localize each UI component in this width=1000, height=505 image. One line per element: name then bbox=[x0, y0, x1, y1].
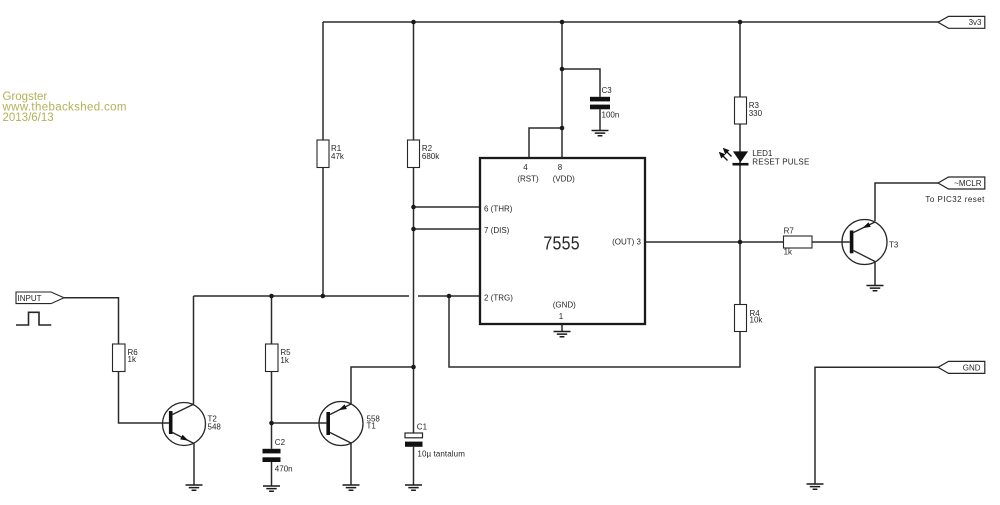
node OUT bbox=[738, 240, 743, 245]
diode LED1 bbox=[720, 149, 749, 164]
wire RST pin 4 bbox=[529, 128, 562, 158]
transistor T2 body bbox=[163, 403, 206, 446]
svg-text:2013/6/13: 2013/6/13 bbox=[3, 112, 54, 124]
node TRG R5 bbox=[269, 294, 274, 299]
svg-text:T1: T1 bbox=[367, 422, 377, 431]
wire T2 emitter to ground bbox=[193, 444, 195, 486]
wire C3 to ground bbox=[599, 109, 601, 130]
svg-text:10k: 10k bbox=[750, 316, 764, 325]
transistor T1 body bbox=[319, 402, 363, 446]
wire R1 column bbox=[322, 22, 324, 296]
wire TRG left segment bbox=[194, 295, 410, 297]
svg-text:100n: 100n bbox=[602, 111, 620, 120]
ground C1 bbox=[405, 485, 422, 490]
svg-text:8: 8 bbox=[558, 163, 563, 172]
svg-text:(GND): (GND) bbox=[553, 301, 576, 310]
wire LED/R3 column bbox=[739, 22, 741, 242]
wire C3 branch bbox=[562, 69, 600, 97]
svg-text:10µ tantalum: 10µ tantalum bbox=[417, 449, 465, 458]
op-amp U1 timer IC 7555 body bbox=[480, 158, 645, 324]
svg-text:680k: 680k bbox=[422, 152, 440, 161]
node input pulse symbol bbox=[16, 312, 51, 325]
svg-text:~MCLR: ~MCLR bbox=[954, 179, 982, 188]
svg-text:RESET PULSE: RESET PULSE bbox=[752, 157, 809, 166]
node top rail x740 bbox=[738, 20, 743, 25]
node TRG R1 bbox=[321, 294, 326, 299]
svg-text:7555: 7555 bbox=[543, 234, 580, 254]
node C3 tap bbox=[560, 67, 565, 72]
resistor R2 bbox=[408, 140, 420, 168]
node top rail x414 bbox=[411, 20, 416, 25]
ground IC pin1 bbox=[554, 332, 571, 337]
node 3v3 flag bbox=[938, 16, 985, 28]
ground C2 bbox=[263, 486, 280, 491]
svg-text:47k: 47k bbox=[331, 152, 345, 161]
svg-text:2 (TRG): 2 (TRG) bbox=[484, 294, 513, 303]
wire THR bbox=[414, 206, 481, 208]
wire T1 emitter to node bbox=[351, 367, 414, 404]
wire T1 base bbox=[272, 422, 327, 424]
ground T2 bbox=[186, 485, 203, 490]
svg-text:C1: C1 bbox=[417, 423, 428, 432]
svg-text:C2: C2 bbox=[275, 438, 286, 447]
svg-text:(VDD): (VDD) bbox=[553, 174, 576, 183]
svg-text:GND: GND bbox=[963, 363, 981, 372]
wire R2/C1 column bbox=[413, 22, 415, 433]
svg-text:6 (THR): 6 (THR) bbox=[484, 204, 513, 213]
wire DIS bbox=[414, 228, 481, 230]
resistor R4 bbox=[735, 305, 747, 332]
svg-text:To PIC32 reset: To PIC32 reset bbox=[925, 195, 985, 204]
node C2 top bbox=[269, 421, 274, 426]
node TRG R4 bbox=[447, 294, 452, 299]
wire C1 bottom lead bbox=[413, 447, 415, 485]
svg-text:1k: 1k bbox=[128, 355, 137, 364]
node top rail x562 bbox=[560, 20, 565, 25]
node RST tap bbox=[560, 126, 565, 131]
svg-text:1k: 1k bbox=[280, 356, 289, 365]
node DIS bbox=[411, 227, 416, 232]
wire T3 emitter to ~MCLR bbox=[875, 183, 939, 221]
resistor R1 bbox=[317, 140, 329, 168]
wire GND flag bbox=[815, 367, 939, 484]
node THR bbox=[411, 205, 416, 210]
wire T1 collector to ground bbox=[350, 443, 352, 485]
svg-text:7 (DIS): 7 (DIS) bbox=[484, 226, 510, 235]
capacitor C2 plates bbox=[263, 449, 281, 462]
svg-text:548: 548 bbox=[208, 422, 222, 431]
wire INPUT to R6 to T2 base bbox=[64, 298, 169, 423]
svg-text:1: 1 bbox=[559, 312, 564, 321]
svg-text:(OUT) 3: (OUT) 3 bbox=[612, 238, 641, 247]
svg-text:1k: 1k bbox=[784, 248, 793, 257]
ground T1 bbox=[343, 485, 360, 490]
resistor R3 bbox=[735, 97, 747, 124]
svg-text:R7: R7 bbox=[784, 226, 795, 235]
resistor R5 bbox=[266, 344, 279, 372]
resistor R6 bbox=[113, 344, 126, 372]
wire T2 collector column bbox=[193, 296, 195, 404]
node C1 top bbox=[411, 365, 416, 370]
wire TRG right segment bbox=[418, 295, 480, 297]
label title Grogster bbox=[2, 91, 127, 124]
wire R4 column bbox=[449, 242, 740, 367]
wire R5 column bbox=[271, 296, 273, 449]
svg-text:C3: C3 bbox=[602, 86, 613, 95]
node ~MCLR flag bbox=[938, 177, 985, 189]
wire T3 collector to ground bbox=[874, 262, 876, 286]
wire 3v3 top rail bbox=[323, 21, 939, 23]
svg-text:4: 4 bbox=[523, 163, 528, 172]
node INPUT flag bbox=[16, 292, 64, 304]
svg-text:3v3: 3v3 bbox=[969, 18, 982, 27]
node GND flag bbox=[938, 361, 985, 373]
ground C3 bbox=[592, 131, 609, 136]
capacitor C1 plates bbox=[405, 433, 423, 447]
svg-text:330: 330 bbox=[749, 109, 763, 118]
resistor R7 bbox=[784, 236, 813, 248]
ground T3 bbox=[867, 286, 884, 291]
svg-text:T3: T3 bbox=[889, 240, 899, 249]
capacitor C3 plates bbox=[590, 97, 610, 109]
wire C2 to ground bbox=[271, 462, 273, 486]
svg-text:INPUT: INPUT bbox=[18, 294, 42, 303]
wire IC pin1 GND bbox=[561, 324, 563, 332]
svg-text:(RST): (RST) bbox=[517, 174, 539, 183]
wire OUT net bbox=[645, 241, 850, 243]
wire VDD column pin 8 bbox=[561, 22, 563, 158]
svg-text:470n: 470n bbox=[275, 465, 293, 474]
transistor T3 body bbox=[842, 220, 887, 265]
ground GND flag bbox=[807, 484, 824, 489]
